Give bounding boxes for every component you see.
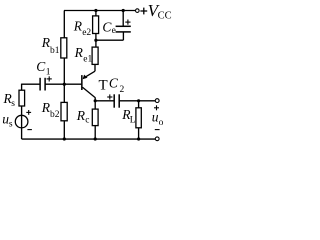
resistor RL [136, 108, 141, 128]
resistor Rc [92, 109, 98, 126]
wire C2 to load [120, 100, 156, 102]
wire C1 to base [45, 83, 81, 85]
svg-text:C: C [109, 75, 119, 90]
wire Ce top lead [122, 11, 124, 27]
node base junction [63, 83, 66, 86]
wire source column [21, 84, 23, 139]
capacitor Ce [116, 20, 131, 32]
wire RL column [138, 101, 140, 139]
label Rb2 [41, 100, 60, 120]
wire Ce connector horizontal [96, 39, 124, 41]
terminal output minus [155, 137, 159, 141]
label us [2, 112, 13, 130]
node RL bottom junction [137, 137, 140, 140]
node collector junction [94, 99, 97, 102]
wire Ce bottom lead [122, 32, 124, 40]
wire Re1 segment [95, 40, 97, 48]
wire Re column top [95, 11, 97, 41]
node Rc bottom junction [94, 137, 97, 140]
svg-text:e: e [112, 26, 116, 36]
label Rs [3, 91, 16, 109]
resistor Rs [19, 90, 25, 106]
label uo [152, 105, 164, 129]
wire Rb2 branch [63, 84, 65, 139]
label Re2 [73, 19, 92, 38]
node Re2 top junction [94, 9, 97, 12]
svg-text:b2: b2 [50, 110, 60, 120]
wire bottom rail [22, 138, 156, 140]
wire collector column [94, 97, 96, 139]
svg-text:e1: e1 [83, 54, 92, 64]
svg-text:e2: e2 [82, 28, 91, 38]
label Rc [76, 108, 90, 126]
label C2 [109, 75, 125, 95]
svg-text:L: L [130, 115, 136, 125]
label +Vcc [140, 1, 171, 22]
node Ce top junction [122, 9, 125, 12]
svg-text:1: 1 [46, 68, 51, 78]
transistor T [81, 71, 95, 97]
svg-text:C: C [36, 59, 46, 74]
svg-text:T: T [99, 77, 108, 93]
resistor Rb2 [61, 102, 67, 120]
wire top supply rail [64, 10, 135, 12]
source us [15, 110, 32, 130]
wire left column Rb1 branch [63, 11, 65, 85]
svg-text:s: s [11, 99, 15, 109]
label RL [121, 107, 136, 126]
label Ce [102, 20, 115, 37]
svg-text:b1: b1 [50, 46, 60, 56]
node Rb2 bottom junction [63, 137, 66, 140]
svg-text:CC: CC [158, 11, 172, 22]
capacitor C1 [40, 76, 52, 90]
wire collector to C2 [95, 100, 114, 102]
terminal +Vcc [136, 9, 140, 13]
label Rb1 [41, 35, 60, 56]
resistor Rb1 [61, 38, 67, 58]
svg-text:2: 2 [120, 85, 125, 95]
label C1 [36, 59, 51, 78]
terminal output plus [155, 99, 159, 103]
capacitor C2 [107, 94, 119, 107]
svg-text:R: R [74, 45, 84, 60]
node RL top junction [137, 99, 140, 102]
label Re1 [74, 45, 93, 64]
wire input to C1 [22, 83, 40, 85]
svg-text:s: s [9, 119, 13, 129]
resistor Re2 [93, 16, 99, 34]
svg-text:c: c [85, 115, 89, 125]
svg-text:o: o [159, 118, 164, 128]
node Ce junction [94, 39, 97, 42]
resistor Re1 [92, 47, 98, 64]
